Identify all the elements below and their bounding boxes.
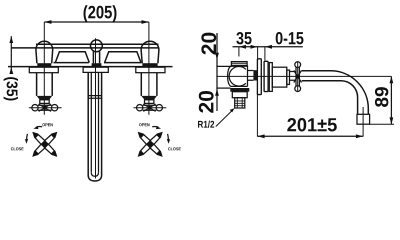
- spout bottom line: [302, 80, 341, 82]
- spout outer curve: [331, 71, 369, 115]
- spout base dark collar: [92, 63, 102, 66]
- dimension (205) text: [84, 5, 117, 22]
- left X handle tips: [33, 133, 56, 156]
- 35 / 0-15 dimension line: [233, 46, 303, 48]
- left dome dark base: [37, 63, 51, 66]
- tick at body top: [216, 65, 232, 67]
- valve body inner arc: [229, 66, 246, 86]
- dimension (35) bottom arrow: [9, 67, 13, 74]
- spout tube outer walls: [88, 73, 101, 176]
- right cross handle front: left knob: [137, 105, 143, 111]
- 89 bottom arrow: [390, 117, 394, 124]
- spout tube joint lines: [88, 96, 101, 99]
- 89 text: [375, 87, 388, 107]
- wall dark block: [253, 70, 257, 80]
- right valve neck box: [145, 100, 154, 104]
- spout tube inner tip: [91, 173, 98, 177]
- left X handle hub: [42, 142, 47, 147]
- 20 bottom arrow (up): [215, 89, 219, 96]
- left handle dome: [36, 41, 53, 63]
- left unit center/extension line: [43, 22, 45, 115]
- right escutcheon collar: [136, 67, 165, 73]
- right OPEN arrow: [152, 125, 158, 128]
- 35 extension line: [238, 47, 240, 57]
- faucet bar top line: [36, 43, 158, 45]
- spout tube inner walls: [91, 73, 98, 173]
- 0-15 right extension line: [264, 47, 266, 61]
- spout tip fitting: [357, 114, 370, 124]
- dimension (205) left arrow: [44, 20, 51, 24]
- 201 dimension line: [257, 135, 363, 137]
- 89 dimension: bottom tick: [370, 123, 394, 125]
- main axis line: [216, 75, 391, 77]
- 89 top arrow: [390, 76, 394, 83]
- right shank: [141, 73, 157, 96]
- bay2 bridge profile: [104, 52, 141, 63]
- left cross handle front: hub: [43, 106, 47, 110]
- wall deck line: [8, 66, 173, 68]
- 35 right arrow: [251, 45, 258, 49]
- left X handle top view arms: [33, 133, 56, 156]
- right handle dome: [141, 41, 159, 63]
- left cross handle front: left knob: [32, 105, 38, 111]
- right cross handle front: right knob: [156, 105, 162, 111]
- left shank taper: [37, 96, 53, 100]
- middle unit center line: [95, 38, 97, 178]
- 20 top arrow (down): [215, 53, 219, 60]
- left valve neck box: [40, 100, 49, 104]
- spout base circle: [91, 40, 103, 52]
- right unit center/extension line: [148, 22, 150, 115]
- spout base neck: [93, 52, 99, 64]
- side cross handle: top knob: [295, 62, 301, 68]
- dimension (205) right arrow: [142, 20, 149, 24]
- 201 dimension: right extension: [362, 124, 364, 136]
- tube stub to handle: [290, 72, 297, 81]
- side cross handle: center line: [297, 62, 299, 92]
- right CLOSE arrow: [167, 134, 170, 140]
- escutcheon plate 1: [257, 59, 261, 95]
- 20 bottom text: [199, 91, 214, 113]
- 35 text: [236, 32, 251, 44]
- spout tube rounded tip: [88, 176, 101, 182]
- left OPEN arrow: [36, 125, 42, 128]
- right X handle hub: [148, 142, 153, 147]
- middle escutcheon collar: [83, 67, 108, 72]
- right X handle top view arms: [139, 133, 162, 156]
- 201±5 text: [287, 118, 336, 131]
- dimension (35) text: [4, 77, 18, 100]
- right cross handle front: diagonals: [143, 104, 155, 111]
- spout hub step ring: [287, 70, 290, 84]
- connector to wall plate: [248, 71, 254, 81]
- 201 left arrow: [257, 134, 264, 138]
- faucet bar second line: [11, 47, 158, 49]
- left cross handle front: axis: [29, 107, 62, 109]
- dimension (35) line: [10, 36, 12, 73]
- spout inner curve: [341, 81, 358, 115]
- bay1 bridge profile: [54, 52, 90, 63]
- left cross handle front: right knob: [51, 105, 57, 111]
- valve body: [228, 65, 248, 86]
- 20 top text: [201, 33, 216, 55]
- right cross handle front: axis: [134, 107, 167, 109]
- side cross handle: hub: [296, 75, 300, 79]
- left OPEN text: [42, 123, 52, 126]
- side cross handle: bar: [296, 67, 299, 86]
- right CLOSE text: [168, 147, 181, 150]
- left cross handle front: diagonals: [39, 104, 51, 111]
- side cross handle: bottom knob: [295, 86, 301, 92]
- 201 right arrow: [356, 134, 363, 138]
- left cross handle front: bar: [38, 105, 52, 110]
- right cross handle front: bar: [143, 105, 157, 110]
- left CLOSE arrow: [26, 134, 29, 140]
- right OPEN text: [139, 123, 149, 126]
- valve lower box: [232, 92, 247, 98]
- valve cap: [231, 62, 247, 66]
- 20/20 dimension line: [216, 33, 218, 111]
- valve nut dark band: [230, 88, 249, 92]
- left shank: [37, 73, 53, 96]
- right cross handle front: hub: [148, 106, 152, 110]
- dimension (35) top arrow: [9, 36, 13, 43]
- right shank taper: [141, 96, 157, 100]
- 0-15 right arrow: [265, 45, 272, 49]
- R1/2 threaded tail: [235, 98, 245, 108]
- right dome dark base: [142, 63, 157, 66]
- spout hub cylinder: [272, 67, 287, 87]
- left CLOSE text: [11, 147, 24, 150]
- escutcheon plate 2: [264, 61, 268, 91]
- spout tip inner line: [362, 107, 364, 124]
- tick at body bottom: [216, 87, 230, 89]
- right X handle tips: [139, 133, 162, 156]
- 0-15 left extension line: [257, 47, 259, 61]
- 201 dimension: left extension: [256, 93, 258, 137]
- R1/2 leader line: [216, 110, 233, 127]
- left escutcheon collar: [29, 67, 58, 73]
- 89 dimension line: [390, 76, 392, 124]
- 0-15 text: [276, 32, 304, 44]
- dimension (205) line: [44, 21, 148, 23]
- side cross handle: diagonals: [294, 71, 302, 83]
- 35 left arrow: [239, 45, 246, 49]
- spout top line: [302, 70, 331, 72]
- flange ring: [269, 63, 272, 92]
- R1/2 text: [198, 121, 214, 128]
